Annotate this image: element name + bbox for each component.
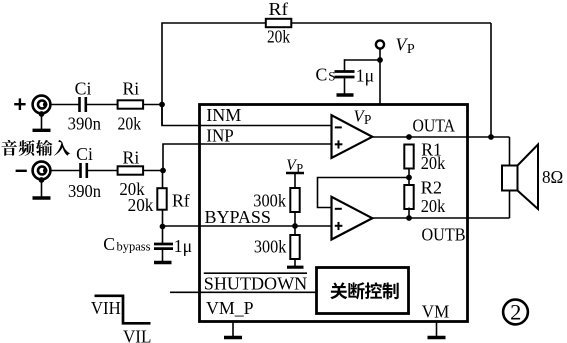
wire: OUTA bbox=[372, 136, 510, 138]
wire: SHUTDOWN input bbox=[170, 291, 317, 293]
RCA jack J2 outer bbox=[33, 162, 51, 180]
svg-text:20k: 20k bbox=[118, 113, 142, 133]
waveform: VIH/VIL step bbox=[95, 296, 151, 324]
ground (J2) bbox=[41, 180, 43, 198]
op-amp U1A bbox=[332, 115, 373, 158]
wire: OUTA to speaker bbox=[509, 137, 511, 166]
label + (input polarity) bbox=[14, 103, 25, 105]
wire: INP node down to Rf bbox=[162, 171, 164, 189]
svg-text:OUTA: OUTA bbox=[413, 116, 456, 136]
svg-text:Ri: Ri bbox=[123, 148, 140, 168]
svg-text:20k: 20k bbox=[128, 195, 154, 215]
svg-text:C: C bbox=[103, 234, 115, 254]
ground (below Cs) bbox=[337, 93, 354, 96]
wire: INM pin bbox=[162, 105, 332, 126]
node: R1/R2 midpoint bbox=[406, 175, 412, 181]
IC boundary box bbox=[200, 105, 468, 322]
supply bar (Vp bias) bbox=[286, 172, 304, 175]
svg-text:8Ω: 8Ω bbox=[542, 167, 563, 187]
wire: junction to Cs bbox=[345, 59, 381, 61]
svg-text:Ci: Ci bbox=[76, 144, 93, 164]
svg-text:Ri: Ri bbox=[122, 78, 139, 98]
svg-text:P: P bbox=[364, 112, 371, 127]
svg-text:20k: 20k bbox=[267, 27, 290, 47]
resistor R2 bbox=[404, 185, 413, 209]
capacitor Cbypass plates bbox=[154, 243, 173, 246]
svg-text:Rf: Rf bbox=[172, 191, 190, 211]
node: Vp/Cs junction bbox=[377, 57, 383, 63]
speaker body bbox=[502, 166, 518, 191]
svg-text:390n: 390n bbox=[68, 181, 101, 201]
node: OUTA/feedback bbox=[488, 134, 494, 140]
node: J2 shield bbox=[39, 177, 45, 183]
node: INM feedback junction bbox=[159, 102, 165, 108]
svg-text:1μ: 1μ bbox=[174, 236, 192, 256]
wire: OUTB bbox=[373, 217, 510, 219]
wire: speaker to OUTB bbox=[509, 190, 511, 218]
resistor Rf (input bias) bbox=[157, 188, 166, 210]
wire: Vp terminal down to IC bbox=[379, 48, 381, 105]
svg-text:SHUTDOWN: SHUTDOWN bbox=[204, 274, 307, 294]
node: OUTA/R1 bbox=[406, 134, 412, 140]
svg-text:VIH: VIH bbox=[91, 298, 121, 318]
resistor Rf (top feedback) bbox=[266, 19, 292, 27]
svg-text:R2: R2 bbox=[421, 177, 442, 197]
wire: BYPASS to U1B plus bbox=[163, 225, 332, 227]
wire: U1B feedback (minus input to R1/R2 node) bbox=[318, 178, 410, 208]
svg-text:INP: INP bbox=[206, 126, 234, 146]
wire: Ri to INP node bbox=[143, 170, 163, 172]
svg-text:2: 2 bbox=[510, 299, 521, 324]
wire: R4 to ground bbox=[294, 259, 296, 267]
ground (VM_P) bbox=[232, 322, 234, 338]
wire: R3 to bypass node bbox=[294, 212, 296, 235]
svg-text:VM_P: VM_P bbox=[206, 298, 254, 318]
svg-text:INM: INM bbox=[206, 105, 241, 125]
wire: feedback from INM node up and across top bbox=[162, 23, 491, 126]
node: Rf/Cbypass/BYPASS bbox=[160, 224, 166, 230]
U1A plus sign bbox=[335, 143, 343, 145]
wire: Vp bar to R3 bbox=[294, 173, 296, 188]
svg-text:P: P bbox=[407, 41, 415, 57]
svg-text:Ci: Ci bbox=[75, 78, 92, 98]
node: J1 shield bbox=[39, 111, 45, 117]
svg-text:C: C bbox=[316, 64, 328, 84]
shutdown control box bbox=[317, 268, 409, 314]
figure number circle 2 bbox=[503, 300, 528, 325]
RCA jack J2 center pin bbox=[38, 167, 46, 175]
wire: Rf to bypass node bbox=[162, 210, 164, 245]
label: shutdown control (Chinese) bbox=[330, 282, 347, 299]
capacitor Cs plates bbox=[335, 70, 355, 73]
label: audio input (Chinese) bbox=[1, 140, 17, 156]
svg-text:VIL: VIL bbox=[123, 326, 151, 343]
svg-text:VM: VM bbox=[422, 302, 450, 322]
node: R2/OUTB bbox=[406, 215, 412, 221]
svg-text:390n: 390n bbox=[68, 113, 101, 133]
ground (Cbypass) bbox=[154, 261, 172, 264]
wire: R2 bottom to OUTB bbox=[408, 208, 410, 219]
wire: R1 bottom to mid node bbox=[408, 169, 410, 187]
U1B minus sign bbox=[335, 208, 342, 210]
RCA jack J1 outer bbox=[33, 96, 51, 114]
svg-text:300k: 300k bbox=[254, 237, 287, 257]
speaker cone bbox=[518, 145, 539, 210]
RCA jack J1 center pin bbox=[38, 101, 46, 109]
op-amp U1B bbox=[332, 197, 373, 240]
resistor R1 bbox=[404, 145, 413, 169]
wire: INP pin bbox=[163, 144, 332, 171]
U1B plus sign bbox=[335, 225, 343, 227]
wire: Ri to INM node bbox=[143, 104, 162, 106]
svg-text:S: S bbox=[328, 68, 335, 83]
wire: J1 to Ci bbox=[51, 104, 80, 106]
wire: right vertical from top wire down to OUTA bbox=[490, 23, 492, 137]
wire: Ci to Ri (bottom) bbox=[87, 170, 118, 172]
terminal Vp (open circle) bbox=[376, 40, 384, 48]
capacitor Cs leads bbox=[344, 59, 346, 71]
resistor Ri (top) bbox=[118, 100, 144, 108]
ground (divider) bbox=[287, 266, 304, 269]
wire: Cbypass to ground bbox=[162, 249, 164, 262]
resistor R3 300k (upper) bbox=[290, 188, 299, 212]
svg-text:20k: 20k bbox=[421, 196, 446, 216]
U1A minus sign bbox=[335, 126, 342, 128]
svg-text:1μ: 1μ bbox=[356, 65, 374, 85]
wire: Ci to Ri bbox=[86, 104, 118, 106]
resistor Ri (bottom) bbox=[118, 166, 144, 174]
capacitor Ci (bottom) plates bbox=[79, 163, 82, 178]
svg-text:20k: 20k bbox=[421, 153, 446, 173]
svg-text:Rf: Rf bbox=[269, 0, 289, 19]
wire: J2 to Ci bbox=[51, 170, 81, 172]
label - (input polarity) bbox=[16, 170, 27, 172]
svg-text:bypass: bypass bbox=[117, 240, 151, 254]
ground (J1) bbox=[41, 114, 43, 130]
node: INP/Rf junction bbox=[160, 168, 166, 174]
svg-text:OUTB: OUTB bbox=[422, 225, 466, 245]
ground (VM) bbox=[436, 322, 438, 338]
node: bypass/divider bbox=[292, 223, 298, 229]
svg-text:BYPASS: BYPASS bbox=[205, 207, 271, 227]
resistor R4 300k (lower) bbox=[290, 235, 299, 259]
capacitor Ci (top) plates bbox=[78, 97, 81, 112]
